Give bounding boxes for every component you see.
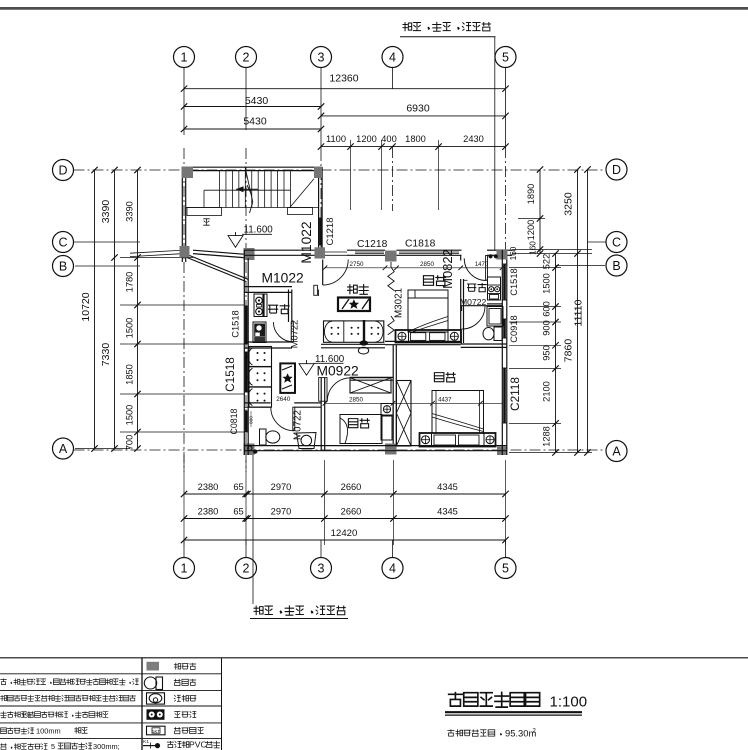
- svg-text:160: 160: [528, 241, 538, 255]
- svg-text:65: 65: [233, 507, 243, 517]
- svg-text:C0918: C0918: [509, 315, 519, 342]
- dim line 5430 upper: [184, 106, 321, 108]
- svg-text:5430: 5430: [245, 95, 269, 107]
- svg-text:2380: 2380: [198, 507, 219, 517]
- bedroom3 north wall: [461, 343, 507, 345]
- svg-text:12360: 12360: [329, 73, 358, 85]
- grid circle C right: [606, 232, 627, 253]
- living south wall under sofa: [321, 343, 385, 345]
- bedroom1 east wall: [460, 279, 462, 343]
- svg-text:1780: 1780: [125, 272, 135, 293]
- small door leaf at hall: [314, 285, 318, 295]
- grid circle 5 top: [495, 47, 516, 68]
- left exterior wall: [243, 250, 245, 455]
- svg-text:1890: 1890: [526, 184, 536, 205]
- svg-text:C: C: [612, 236, 621, 250]
- svg-text:PVC: PVC: [189, 739, 207, 749]
- svg-text:C1218: C1218: [325, 218, 336, 246]
- grid circle 1 top: [174, 47, 195, 68]
- C wall stub right of grid5 column: [508, 249, 513, 251]
- legend row2 toilet: [144, 677, 156, 689]
- svg-text:6930: 6930: [406, 103, 430, 115]
- grid leader C left: [74, 241, 140, 243]
- room label bedroom3 卧室: [434, 372, 455, 382]
- C wall window C1818: [397, 249, 462, 251]
- svg-text:2660: 2660: [341, 507, 362, 517]
- wardrobe bedroom2: [350, 378, 391, 393]
- svg-text:2640: 2640: [276, 396, 291, 403]
- kitchen2 counter edge line: [464, 279, 468, 281]
- dim chain 1100 1200 400 1800 2430: [321, 146, 506, 148]
- svg-text:3390: 3390: [100, 200, 112, 224]
- bottom exterior wall A: [244, 445, 507, 447]
- svg-text:2: 2: [243, 562, 250, 576]
- window C2118 glazing: [503, 368, 506, 423]
- svg-text:M0722: M0722: [290, 320, 300, 348]
- kitchen2 bath2 divider wall: [487, 303, 502, 305]
- svg-text:7860: 7860: [563, 339, 575, 363]
- svg-text:400: 400: [381, 134, 397, 144]
- svg-text:M1022: M1022: [262, 271, 304, 286]
- stair treads: [219, 171, 221, 208]
- window C1518 kitchen glazing: [245, 306, 248, 344]
- svg-text:700: 700: [125, 435, 135, 451]
- window C0818 bath glazing: [245, 411, 248, 432]
- bath1 sink: [297, 433, 317, 449]
- bedroom1 west sliding door zigzag M3021: [388, 267, 394, 291]
- vertical grid line 3 upper: [320, 150, 322, 248]
- svg-text:D: D: [58, 164, 67, 178]
- svg-text:M0722: M0722: [293, 410, 304, 440]
- stems bottom circles: [183, 540, 185, 558]
- bed1 foot band with nightstands: [396, 330, 462, 343]
- svg-text:M0922: M0922: [317, 364, 359, 379]
- tv cabinet dining: [280, 363, 295, 393]
- svg-text:300mm;: 300mm;: [93, 742, 120, 750]
- svg-text:1100: 1100: [326, 134, 346, 144]
- svg-text:C2118: C2118: [508, 377, 522, 411]
- area note: [447, 729, 501, 736]
- stems top circles: [183, 68, 185, 136]
- grid circle B right: [606, 255, 627, 276]
- bedroom2 door M0922 leaf and arc: [319, 378, 327, 402]
- title 四面层平面图: [448, 692, 540, 707]
- legend row1 structural column: [147, 662, 160, 671]
- svg-text:5: 5: [51, 742, 55, 750]
- svg-text:4437: 4437: [438, 398, 452, 404]
- bottom dim 12420: [184, 539, 506, 541]
- sofa three seat: [324, 321, 384, 342]
- svg-text:C1518: C1518: [231, 310, 241, 337]
- kitchen1 door M0722 leaf and arc: [291, 322, 293, 342]
- vertical grid line 1 dash-dot: [183, 148, 185, 472]
- window C1518 kitchen2 glazing: [503, 264, 506, 300]
- vertical grid line 2 dash-dot: [245, 148, 247, 472]
- svg-text:D: D: [612, 163, 621, 177]
- grid circle D right: [606, 159, 627, 180]
- dim line right 11110: [587, 170, 589, 453]
- svg-text:3250: 3250: [563, 192, 575, 216]
- svg-text:1500: 1500: [542, 273, 552, 294]
- svg-text:10720: 10720: [80, 292, 92, 321]
- svg-text:C1518: C1518: [509, 268, 519, 295]
- svg-text:1:100: 1:100: [550, 694, 588, 711]
- grid circle C left: [53, 232, 74, 253]
- grid circle D left: [53, 160, 74, 181]
- svg-text:2430: 2430: [463, 134, 484, 144]
- dim chain right upper 1890 1200 160: [539, 170, 541, 254]
- bottom dim row1: [184, 493, 506, 495]
- grid circle 4 top: [382, 47, 403, 68]
- pipe risers at grid5 wall: [488, 254, 492, 258]
- column grid3/D: [314, 167, 322, 179]
- svg-text:1470: 1470: [475, 262, 489, 268]
- dim chain left 3390 1780 1500 1850 1500 700: [137, 170, 139, 449]
- bedroom1 door M0822 leaf and arc: [486, 256, 488, 281]
- extension lines left: [120, 257, 193, 259]
- drain riser symbol at sofa: [363, 320, 365, 342]
- C wall window C1218 living: [347, 249, 385, 251]
- svg-text:1850: 1850: [125, 364, 135, 385]
- room label kitchen2 厨房: [467, 283, 487, 292]
- kitchen1 bottom wall: [244, 341, 292, 343]
- dim line right 3250 7860: [577, 170, 579, 453]
- svg-text:160: 160: [508, 246, 518, 260]
- svg-text:1%: 1%: [21, 711, 32, 720]
- svg-text:3: 3: [318, 562, 325, 576]
- interior dim line at hall wall: [325, 402, 502, 404]
- hall corridor wall right of kitchen1: [318, 290, 320, 297]
- grid circle 2 top: [236, 47, 257, 68]
- interior dim line below C wall: [325, 267, 502, 269]
- svg-text:C1218: C1218: [357, 239, 388, 250]
- svg-text:100mm: 100mm: [36, 727, 61, 736]
- stair block top wall: [182, 166, 322, 168]
- svg-text:3390: 3390: [125, 201, 135, 222]
- bed2 bedroom bottom-middle: [340, 415, 382, 444]
- svg-text:5: 5: [502, 51, 509, 65]
- legend row5 AC outdoor unit: [147, 726, 166, 735]
- tv cabinet living: [338, 298, 370, 312]
- svg-text:3: 3: [318, 51, 325, 65]
- svg-text:2850: 2850: [349, 396, 364, 403]
- svg-text:2100: 2100: [542, 381, 552, 402]
- room label kitchen1 厨房: [268, 304, 290, 314]
- svg-text:1500: 1500: [125, 318, 135, 339]
- sheet top border: [0, 7, 748, 10]
- bath1 pipe risers: [248, 446, 252, 450]
- svg-text:C0818: C0818: [229, 408, 239, 434]
- legend table frame: [141, 658, 143, 750]
- svg-text:4: 4: [389, 51, 396, 65]
- grid circle 1 bottom: [174, 558, 195, 579]
- svg-text:1800: 1800: [405, 134, 426, 144]
- bath2 door arc: [462, 306, 485, 329]
- svg-text:2750: 2750: [349, 261, 364, 268]
- svg-text:C1518: C1518: [223, 357, 237, 392]
- bottom pipe leader: [252, 455, 254, 604]
- stair flight bottom edge: [186, 207, 319, 209]
- svg-text:1200: 1200: [526, 220, 536, 241]
- svg-text:1KT: 1KT: [152, 729, 161, 734]
- svg-text:522: 522: [542, 254, 552, 270]
- svg-text:600: 600: [542, 301, 552, 317]
- kitchen1 right wall: [288, 290, 290, 323]
- window C0918 glazing: [503, 319, 506, 338]
- grid leader C right: [588, 241, 606, 243]
- stair down label: [203, 219, 209, 225]
- dim line 6930: [321, 115, 506, 117]
- column grid5/A: [497, 447, 507, 456]
- entry threshold lines: [325, 251, 347, 253]
- stair break line with arrow: [245, 167, 253, 202]
- dim line 10720 left: [94, 170, 96, 449]
- svg-text:4345: 4345: [437, 482, 458, 492]
- grid circle 5 bottom: [495, 558, 516, 579]
- svg-text:4: 4: [389, 562, 396, 576]
- svg-text:2970: 2970: [271, 507, 292, 517]
- bath2 toilet: [494, 327, 502, 341]
- bottom extension lines: [183, 455, 185, 545]
- column grid1/D: [182, 167, 194, 179]
- column grid2/C: [244, 248, 255, 260]
- svg-text:2: 2: [243, 51, 250, 65]
- svg-text:2850: 2850: [420, 261, 435, 268]
- kitchen1 top wall: [244, 286, 292, 288]
- svg-text:950: 950: [542, 345, 552, 361]
- title underline double: [445, 711, 582, 713]
- stair landing box right: [288, 208, 313, 215]
- svg-text:A: A: [59, 442, 68, 456]
- grid circle 4 bottom: [382, 558, 403, 579]
- bath2 washer: [487, 307, 503, 327]
- svg-text:2380: 2380: [198, 482, 219, 492]
- top pipe note text: [403, 22, 491, 31]
- grid line D dash-dot: [74, 169, 607, 171]
- grid circle B left: [53, 256, 74, 277]
- svg-text:M1022: M1022: [299, 221, 314, 263]
- svg-text:900: 900: [542, 320, 552, 336]
- bottom pipe note text: [254, 605, 346, 615]
- svg-text:1: 1: [181, 51, 188, 65]
- entry door M1022 leaf and arc: [322, 260, 324, 286]
- bed3 foot band with nightstands: [420, 433, 496, 447]
- grid circle 2 bottom: [236, 558, 257, 579]
- hall bath1 divider wall: [244, 402, 271, 404]
- svg-text:11110: 11110: [573, 299, 585, 326]
- kitchen1 sink counter: [253, 322, 266, 343]
- vertical grid line 5 upper: [505, 147, 507, 250]
- room label living 客厅: [347, 284, 369, 294]
- svg-text:1500: 1500: [125, 405, 135, 426]
- bath1 toilet: [260, 429, 267, 445]
- grid4 wall stub below column: [390, 262, 392, 267]
- kitchen2 counter with stove: [488, 277, 501, 300]
- dim line 5430 lower: [184, 128, 321, 130]
- svg-text:M3021: M3021: [394, 288, 405, 318]
- svg-text:C: C: [58, 236, 67, 250]
- kitchen1 stove: [254, 294, 267, 317]
- grid circle A right: [606, 441, 627, 462]
- sloped wall entry diagonal: [187, 258, 246, 282]
- sloped wall upper at stair foot: [193, 250, 244, 254]
- stair block left wall: [181, 167, 183, 262]
- svg-text:65: 65: [233, 482, 243, 492]
- column grid3/C: [315, 247, 326, 258]
- stair mid rail: [204, 189, 291, 191]
- grid circle A left: [53, 438, 74, 459]
- window C1218 stairwell glazing: [319, 218, 322, 245]
- column grid2/A: [244, 444, 255, 456]
- sheet separator line above title area: [0, 657, 748, 659]
- svg-text:B: B: [59, 260, 67, 274]
- room label bedroom2 卧室: [348, 418, 369, 428]
- legend row4 gas stove: [147, 709, 165, 720]
- extension lines right: [518, 218, 545, 220]
- svg-text:1: 1: [181, 562, 188, 576]
- svg-text:A: A: [612, 445, 621, 459]
- single sofas dining: [249, 347, 272, 367]
- top pipe leader: [494, 37, 496, 250]
- svg-text:B: B: [612, 259, 620, 273]
- dim line 12360: [184, 88, 506, 90]
- column grid4/A: [385, 444, 397, 455]
- svg-text:2660: 2660: [341, 482, 362, 492]
- C wall segment right of door M0822: [487, 249, 497, 251]
- hall bedroom2 divider wall: [320, 377, 322, 450]
- dim chain right lower 522 1500 600 900 950 2100 1288: [555, 254, 557, 453]
- svg-text:12420: 12420: [331, 528, 358, 539]
- svg-text:M0822: M0822: [440, 249, 455, 289]
- svg-text:7330: 7330: [100, 343, 112, 367]
- vertical grid line 4 upper: [392, 147, 394, 211]
- grid leader B right: [556, 265, 605, 267]
- dim line 3390-7330 left: [114, 170, 116, 449]
- svg-text:4345: 4345: [437, 507, 458, 517]
- svg-text:C1818: C1818: [405, 239, 436, 250]
- svg-text:1288: 1288: [542, 426, 552, 447]
- svg-text:K1: K1: [143, 739, 149, 745]
- right exterior wall: [501, 250, 503, 455]
- svg-text:5: 5: [502, 562, 509, 576]
- svg-text:5430: 5430: [243, 116, 267, 128]
- grid4 interior wall: [392, 345, 394, 444]
- stair diagonal cut right: [290, 179, 314, 208]
- bedroom2 north wall: [350, 376, 393, 378]
- grid line A dash-dot: [74, 449, 607, 451]
- window C1518 dining glazing: [245, 352, 248, 392]
- bedroom1 bottom wall: [385, 340, 461, 342]
- svg-text:1200: 1200: [356, 134, 377, 144]
- room label bedroom1 卧室: [423, 275, 446, 285]
- bed1 bedroom top-right: [408, 290, 448, 332]
- bed2 nightstand: [381, 404, 393, 416]
- extension lines top chain: [350, 140, 352, 210]
- column grid4/C: [385, 251, 397, 262]
- grid circle 3 bottom: [311, 558, 332, 579]
- C wall left segment with entry: [244, 249, 315, 251]
- column grid5/C: [497, 249, 508, 259]
- column grid1/stairfoot: [180, 246, 190, 258]
- svg-text:2970: 2970: [271, 482, 292, 492]
- bottom dim row2: [184, 518, 506, 520]
- grid leader B left: [75, 265, 140, 267]
- svg-text:M0722: M0722: [460, 297, 486, 307]
- bath1 door M0722 leaf and arc: [293, 407, 295, 430]
- stair landing box left: [187, 208, 222, 216]
- interior dim line mid: [389, 267, 461, 269]
- tall wardrobe grid4: [396, 381, 411, 447]
- grid circle 3 top: [311, 47, 332, 68]
- bed3 bedroom bottom-right: [432, 391, 484, 434]
- legend row3 washbasin: [147, 693, 165, 704]
- stair block right wall: [318, 167, 320, 248]
